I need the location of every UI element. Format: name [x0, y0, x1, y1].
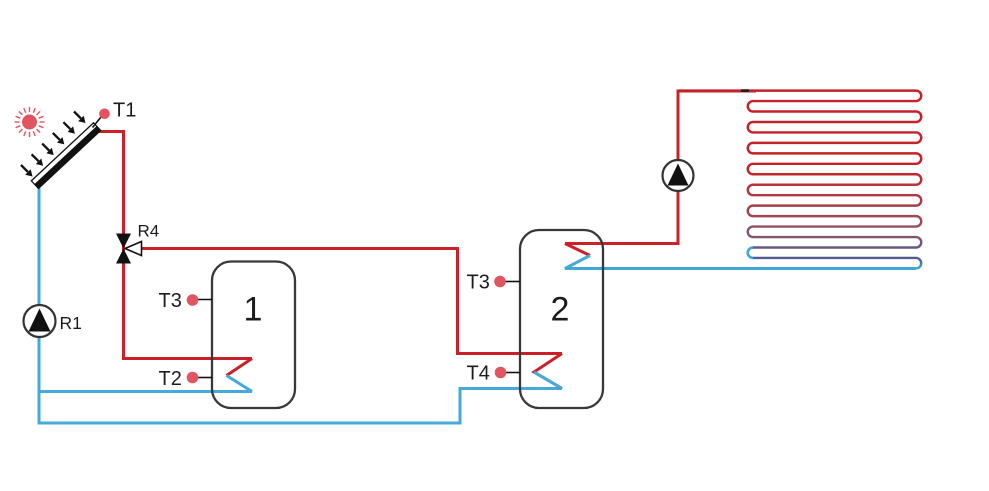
heat exchanger coil tank2 lower (red in)	[534, 354, 562, 389]
sensor T2 tank1	[159, 368, 213, 390]
small dark mark on serpentine entry	[741, 89, 749, 92]
svg-text:T1: T1	[113, 100, 136, 122]
pump heating loop	[663, 160, 694, 191]
wire: blue bottom horizontal from tank1 exchanger to solar vertical	[39, 390, 252, 393]
heat exchanger coil tank2 lower (blue diagonal)	[534, 372, 562, 389]
svg-text:2: 2	[551, 291, 570, 329]
heat exchanger coil tank1 (blue out)	[227, 376, 253, 392]
svg-text:R1: R1	[60, 313, 82, 333]
wire: blue solar return vertical (collector to bottom)	[38, 188, 41, 423]
svg-text:T2: T2	[159, 368, 182, 390]
svg-text:T4: T4	[467, 363, 490, 385]
svg-text:T3: T3	[467, 272, 490, 294]
tank 2	[520, 230, 603, 408]
sunlight arrows	[21, 112, 86, 177]
tank 1	[212, 262, 295, 409]
sensor T3 tank1	[159, 290, 213, 312]
solar collector panel	[31, 123, 100, 189]
sensor T3 tank2	[467, 272, 521, 294]
wire: blue bottom return from tank2 exchanger	[38, 389, 563, 424]
svg-text:1: 1	[244, 291, 263, 329]
valve R4	[116, 222, 159, 264]
sun	[15, 107, 45, 137]
wire: red solar supply collector to valve to tank1 exchanger	[99, 132, 252, 359]
svg-text:R4: R4	[138, 222, 160, 241]
sensor T4 tank2	[467, 363, 521, 385]
svg-text:T3: T3	[159, 290, 182, 312]
pump R1	[24, 305, 82, 337]
wire: red from valve R4 to tank2 lower exchanger	[142, 249, 563, 354]
wire: heating supply red from tank2 top exchanger to serpentine	[565, 91, 756, 244]
sensor T1	[93, 100, 137, 128]
heat exchanger coil tank1 (red in)	[227, 359, 253, 376]
radiator serpentine coil	[565, 91, 921, 269]
heat exchanger coil tank2 upper (blue)	[565, 256, 916, 269]
blue left u-turn near serpentine bottom	[748, 248, 753, 258]
heat exchanger coil tank2 upper (red)	[565, 244, 590, 256]
